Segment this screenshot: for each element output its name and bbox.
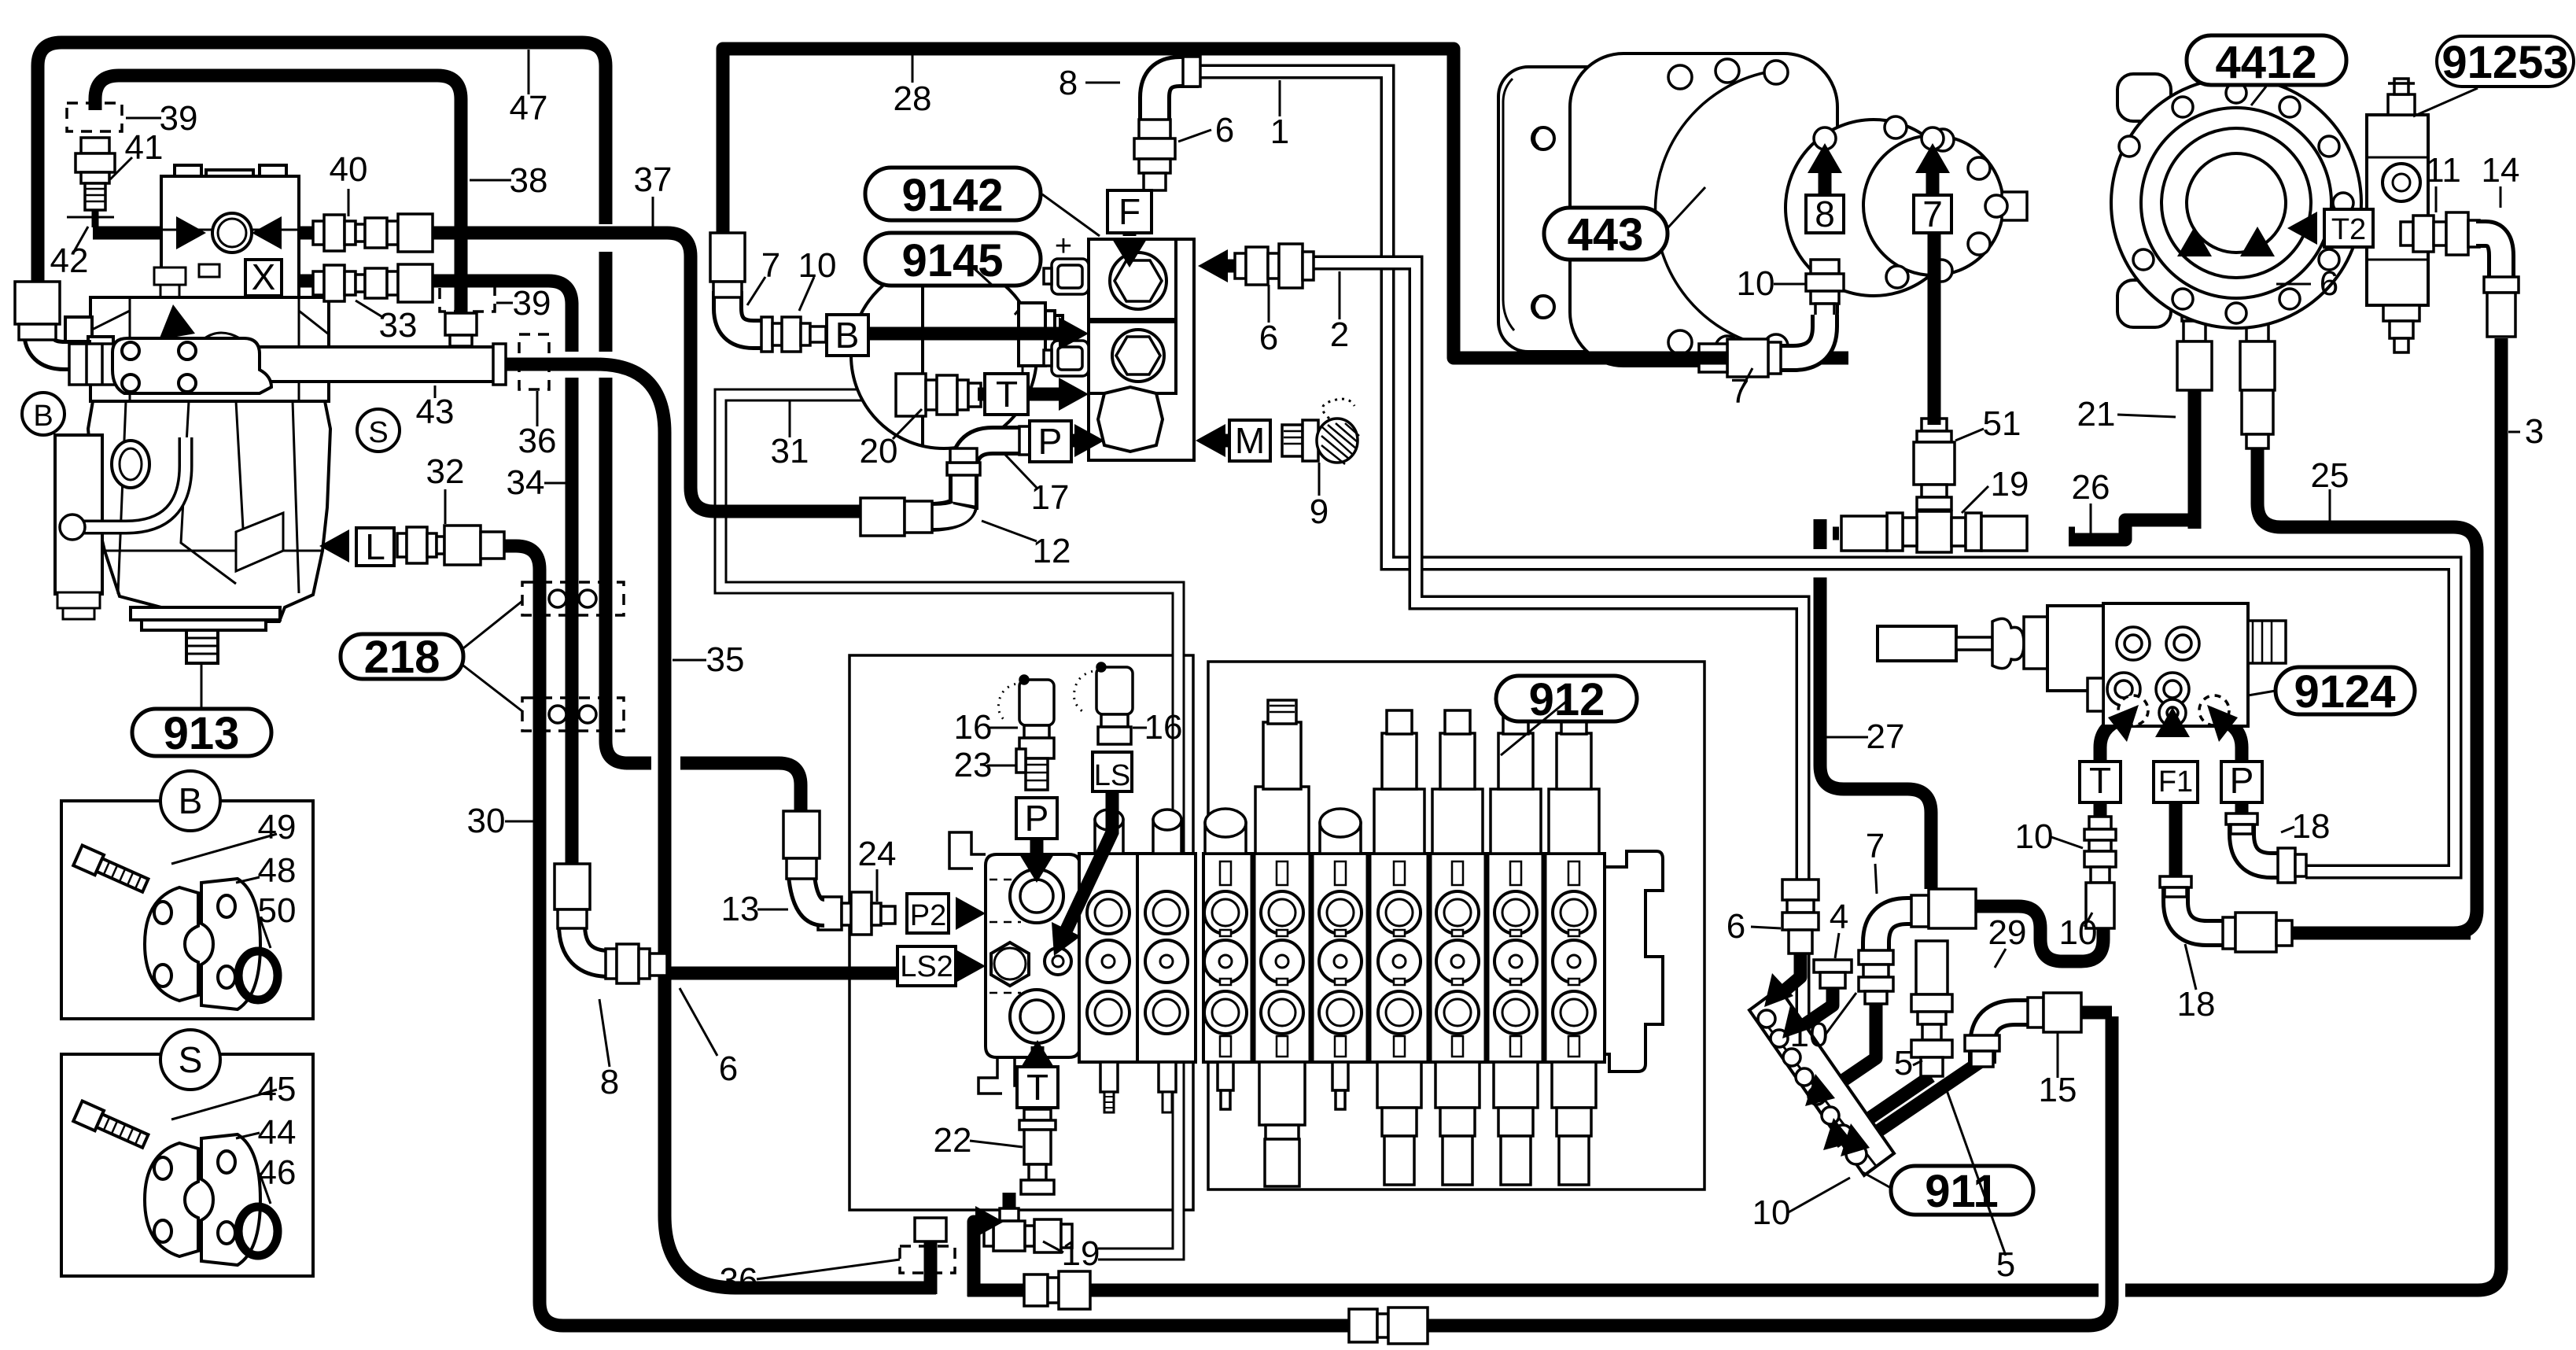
bank 912 top caps sections 1,3 domes (1205, 809, 1361, 854)
hose 28 to elbow 10 overdraw (1454, 352, 1727, 358)
arrow 7 up into motor (1915, 143, 1950, 173)
fitting 10 below box 8 (1806, 260, 1844, 327)
valve bank 912 spool circles (1204, 861, 1595, 1057)
svg-text:91253: 91253 (2441, 37, 2568, 88)
arrow P into block (1074, 424, 1104, 457)
detail box B (61, 801, 313, 1019)
fitting 20 chain west of T (896, 374, 981, 416)
svg-text:25: 25 (2311, 456, 2349, 495)
svg-text:46: 46 (258, 1153, 297, 1192)
hose 7 drop overdraw (1928, 233, 1941, 425)
svg-text:36: 36 (518, 422, 557, 460)
bank 912 bottom works (1218, 1062, 1596, 1186)
hose B line overdraw (868, 327, 1063, 341)
fitting 51 stack (1914, 419, 1955, 510)
hose 27 drop to manifold 911 (1820, 519, 1931, 889)
arrow L into pump (319, 529, 349, 562)
fitting 21 stack with hose end (2177, 277, 2212, 390)
fitting 32 chain (397, 526, 504, 565)
elbow 13 (783, 811, 824, 913)
svg-text:45: 45 (258, 1070, 297, 1108)
pump base plates (131, 607, 280, 620)
bank 912 towers sections 4-7 (1374, 710, 1599, 854)
elbow B at pump left (38, 321, 91, 356)
svg-text:10: 10 (1790, 1016, 1829, 1054)
small bank section 1 (1079, 810, 1137, 1112)
218 clamp dashed upper (522, 582, 624, 615)
arrow 5 into manifold (1823, 1118, 1853, 1150)
motor 443 ports 8 and 7 (1814, 127, 1836, 149)
hose elbow8 drop to F (1148, 116, 1162, 189)
clamp 36 on hose43 dashed (519, 334, 549, 389)
svg-text:16: 16 (1144, 708, 1183, 747)
svg-text:11: 11 (2425, 151, 2461, 190)
fitting on hose38 at pipe43 (445, 313, 477, 346)
svg-text:22: 22 (934, 1121, 972, 1160)
clamp half 44 rear (145, 1143, 198, 1256)
manifold feed from fitting 5 (1834, 1076, 1931, 1142)
svg-text:9: 9 (1310, 492, 1329, 531)
pump hook pipe (60, 437, 186, 540)
svg-text:16: 16 (954, 708, 993, 747)
connector minus on block (1044, 341, 1089, 410)
hose 35 riser to tank fitting 36 (924, 1235, 938, 1294)
elbow 7 + adapter chain to B box (710, 233, 826, 352)
fitting 6 stack with hose end (2240, 277, 2275, 390)
svg-text:2: 2 (1330, 315, 1349, 354)
svg-text:18: 18 (2292, 807, 2331, 846)
svg-text:4: 4 (1830, 898, 1848, 936)
valve block 9142 (1089, 239, 1194, 460)
pump top port circle (212, 213, 252, 253)
arrow LS diagonal (1052, 922, 1081, 956)
hose T line into block 9142 (978, 388, 1063, 401)
pipe 2 (thin outlined pipe from fitting 2/6 to 9124 area) (1311, 263, 1803, 1072)
hose 21 arrow stub (2188, 250, 2202, 275)
hose 37 top port line with fitting 40 (244, 233, 869, 511)
svg-text:T2: T2 (2331, 213, 2366, 246)
svg-text:F: F (1118, 191, 1141, 232)
hose 43 curve into hose 35 (504, 364, 936, 1288)
o-ring 46 (238, 1207, 278, 1256)
svg-text:P: P (1038, 421, 1063, 462)
svg-text:18: 18 (2177, 985, 2216, 1024)
pump left port stub (65, 317, 92, 347)
pump top valve block (161, 176, 299, 299)
manifold feed from plug 4 (1798, 987, 1833, 1029)
svg-text:15: 15 (2039, 1071, 2077, 1109)
svg-text:51: 51 (1983, 404, 2021, 443)
svg-text:9142: 9142 (901, 170, 1003, 221)
elbow 12 hose end (861, 498, 964, 536)
svg-text:T: T (996, 374, 1018, 415)
motor 443 shaft (2002, 192, 2027, 220)
elbow 18 at P 9124 (2226, 813, 2306, 883)
svg-text:17: 17 (1031, 478, 1070, 517)
pump top bolt tabs (175, 165, 201, 178)
hose 9124 T stub (2094, 803, 2107, 818)
pump control bracket over pipe (112, 333, 271, 393)
hose L port to 30 corner (481, 546, 2112, 1326)
hose 7 box stub overdraw (1926, 167, 1940, 195)
test point 16a with cap (998, 676, 1054, 790)
svg-text:P: P (2230, 760, 2254, 801)
manifold feed from elbow 15 (1850, 1060, 1982, 1150)
svg-text:32: 32 (426, 452, 465, 491)
svg-text:42: 42 (50, 242, 89, 280)
inlet lower tabs (978, 1057, 1030, 1094)
svg-text:39: 39 (160, 99, 198, 138)
clamp half 48 front (201, 879, 260, 1009)
hose 47 right drop (segmented at crossings) (606, 252, 628, 763)
clamp 36 dashed bottom (900, 1246, 955, 1273)
arrow T up into 9124 (2108, 705, 2139, 742)
clamp half 48 rear (145, 887, 198, 1001)
wire X diagonal (185, 294, 263, 324)
svg-text:P2: P2 (910, 899, 946, 932)
hose 28 frame top (723, 49, 1723, 358)
svg-text:6: 6 (1259, 319, 1278, 357)
detail box S (61, 1054, 313, 1276)
hose P line overdraw (1030, 434, 1076, 448)
svg-text:7: 7 (761, 246, 780, 285)
fitting 24 chain to P2 (818, 892, 895, 935)
svg-text:S: S (368, 416, 388, 449)
fitting 2/6 chain right of block (1235, 244, 1314, 288)
svg-text:10: 10 (2059, 913, 2098, 952)
svg-text:5: 5 (1894, 1044, 1913, 1083)
connector plus on block (1044, 230, 1089, 294)
arrow T2 into valve (2287, 212, 2317, 245)
svg-text:3: 3 (2525, 412, 2544, 451)
elbow 17 and riser to P (947, 426, 1030, 510)
hose 7 box arrow stub (1926, 167, 1940, 195)
inlet T port (1010, 990, 1063, 1043)
tank fitting 36 riser (915, 1218, 946, 1241)
svg-text:37: 37 (634, 160, 673, 199)
adapter on hose 25 at top (2242, 390, 2273, 448)
fitting 23 (1016, 749, 1026, 773)
pump side port ellipse (112, 441, 149, 488)
svg-text:9145: 9145 (901, 235, 1003, 286)
arrow T into block (1059, 378, 1089, 411)
svg-text:+: + (1055, 230, 1072, 263)
svg-text:19: 19 (1991, 465, 2029, 503)
hose F drop into block (1123, 198, 1137, 236)
inlet block (986, 854, 1080, 1057)
hose 22 to tee 19 (1009, 1106, 1037, 1208)
hose T inlet stub overdraw (1031, 1046, 1045, 1068)
clamp half 44 front (201, 1134, 260, 1265)
svg-text:14: 14 (2482, 151, 2520, 190)
arrow X diagonal (159, 304, 195, 340)
joystick handle (1878, 626, 1956, 661)
test point 16b with cap (1074, 663, 1133, 744)
svg-text:44: 44 (258, 1113, 297, 1152)
hose LS diagonal overdraw (1063, 790, 1112, 936)
svg-text:35: 35 (706, 640, 745, 679)
manifold feed from elbow 7c (1817, 1001, 1876, 1098)
bank 912 tall tower section 2 (1255, 700, 1309, 854)
svg-text:F1: F1 (2158, 765, 2193, 799)
svg-text:12: 12 (1033, 532, 1071, 570)
arrow 42 into port (176, 216, 206, 249)
hose LS2 run (667, 967, 956, 980)
drain hose to corner 3 (gap at elbow-15 riser) (1019, 1267, 2501, 1290)
hose 8 box stub overdraw (1819, 167, 1832, 195)
o-ring 50 (238, 951, 278, 1000)
hose T riser inlet (1031, 1046, 1045, 1068)
svg-text:30: 30 (467, 802, 506, 840)
svg-text:X: X (252, 256, 276, 297)
inlet LS2 hex port (991, 942, 1029, 986)
hose 26 link tee to fitting 21 (2069, 385, 2195, 540)
svg-text:443: 443 (1568, 209, 1644, 260)
svg-text:B: B (179, 780, 203, 821)
pipe 31 (thin outlined pipe from T fitting 20 down to tee 19) (720, 395, 1178, 1254)
arrow B into block (1059, 317, 1089, 350)
218 clamp dashed lower (522, 698, 624, 731)
svg-text:10: 10 (798, 246, 837, 285)
hose 25 from motor 4412 fitting 6 to 9124 F1 (2257, 385, 2477, 933)
pump bolt on mid flange (154, 267, 186, 285)
arrow 6c into manifold (1764, 973, 1793, 1007)
arrow F down (1112, 239, 1147, 267)
svg-text:48: 48 (258, 851, 297, 890)
svg-text:8: 8 (1815, 194, 1835, 234)
motor 443 rotor circle (1786, 120, 1962, 296)
plug 9 with cap chain at M (1282, 399, 1359, 464)
fitting 10 below T 9124 (2084, 817, 2116, 928)
svg-text:LS: LS (1094, 759, 1130, 792)
svg-text:20: 20 (860, 432, 898, 470)
end plate (1605, 851, 1663, 1072)
svg-text:1: 1 (1270, 112, 1289, 151)
svg-text:913: 913 (164, 708, 240, 759)
svg-text:4412: 4412 (2215, 37, 2316, 88)
svg-text:912: 912 (1529, 674, 1605, 725)
svg-text:33: 33 (379, 306, 418, 345)
tank box left (thin frame around valve banks) (849, 655, 1193, 1210)
svg-text:28: 28 (894, 79, 932, 118)
hose 3 vertical from elbow 14 (2495, 338, 2508, 1270)
svg-text:31: 31 (771, 432, 809, 470)
fitting 22 stack (1019, 1109, 1056, 1194)
hose tee 19b stubs (1833, 480, 2075, 533)
svg-text:49: 49 (258, 808, 297, 847)
arrow LS2 into inlet (956, 950, 986, 983)
fitting 11 chain (2401, 212, 2479, 255)
svg-text:S: S (179, 1039, 203, 1080)
hose T2 stub (2311, 222, 2324, 235)
pilot valve column (2047, 606, 2103, 691)
hose tee 19 feed from drain line (974, 1222, 982, 1297)
arrow into tee 19 (975, 1206, 1004, 1237)
tee 19 (984, 1208, 1072, 1252)
svg-text:6: 6 (1727, 907, 1745, 946)
elbow LS2 from hose 34 (555, 864, 667, 983)
hose 9124 P stub (2235, 803, 2249, 822)
motor 443 front face circle (1863, 135, 2003, 275)
svg-text:B: B (33, 400, 53, 433)
arrow 8 up into motor (1808, 143, 1842, 173)
elbow 14 (2476, 234, 2519, 337)
elbow 15 (1965, 993, 2112, 1067)
accumulator sphere 9145 (851, 263, 1063, 448)
hose 42 arrow line (93, 227, 181, 240)
fitting 6 below elbow 8 (1134, 120, 1175, 190)
arrow 4 into manifold (1782, 1005, 1811, 1038)
inlet P port (1010, 869, 1063, 923)
hose B line through accumulator (868, 327, 1063, 341)
svg-text:47: 47 (510, 89, 548, 127)
svg-text:34: 34 (507, 463, 545, 502)
manifold feed from fitting 6 (1774, 953, 1800, 999)
bolt 45 (73, 1101, 149, 1152)
motor 4412 flange circles (2111, 78, 2361, 328)
svg-text:6: 6 (719, 1049, 738, 1088)
hose P drop inlet (1030, 838, 1044, 864)
svg-text:911: 911 (1925, 1166, 1999, 1217)
svg-text:8: 8 (1059, 64, 1078, 102)
svg-text:27: 27 (1867, 717, 1905, 756)
pipe 1 (thin outlined pipe from elbow 8 to valve 9124 P elbow) (1196, 72, 2455, 872)
pump main mid housing (90, 297, 329, 401)
pump left B port block (88, 337, 113, 374)
svg-text:P: P (1025, 798, 1049, 839)
pump shaft stem (186, 630, 218, 663)
hose T line overdraw (978, 388, 1063, 401)
svg-text:10: 10 (2015, 817, 2054, 856)
arrow P2 into inlet (956, 897, 986, 930)
svg-text:41: 41 (125, 128, 164, 167)
arrow T up into inlet (1020, 1040, 1055, 1068)
svg-text:23: 23 (954, 746, 993, 784)
pipe 43 (69, 344, 506, 385)
bolt 49 (73, 846, 149, 896)
fitting 40 chain (313, 214, 433, 252)
motor 4412 bolt holes (2119, 83, 2353, 323)
svg-text:38: 38 (510, 161, 548, 200)
svg-text:43: 43 (416, 393, 455, 431)
svg-text:7: 7 (1866, 827, 1885, 865)
fitting 33 chain (313, 264, 433, 302)
svg-text:10: 10 (1737, 264, 1775, 303)
clamp 39 upper dashed (67, 103, 122, 131)
svg-text:26: 26 (2072, 468, 2110, 507)
svg-text:L: L (365, 526, 385, 567)
clamp 39 lower dashed (440, 283, 495, 312)
svg-text:7: 7 (1730, 372, 1749, 411)
svg-text:19: 19 (1062, 1234, 1100, 1273)
hose 9124 F1 drop (2169, 803, 2183, 881)
motor 443 body (1570, 53, 1837, 366)
svg-text:T: T (1026, 1067, 1048, 1108)
svg-text:7: 7 (1922, 194, 1943, 234)
svg-text:39: 39 (513, 284, 551, 323)
svg-text:6: 6 (1215, 111, 1234, 149)
elbow 18b at F1 9124 (2160, 876, 2292, 952)
hose-end fitting on hose47 left (15, 282, 60, 340)
valve bank box 912 (1208, 662, 1704, 1190)
svg-text:24: 24 (858, 835, 897, 873)
hose 2/6 arrow stub (1221, 260, 1235, 273)
svg-text:LS2: LS2 (900, 950, 953, 983)
hose 40 arrow line (277, 227, 315, 240)
tee 19b (1841, 511, 2027, 552)
motor 4412 ears (2117, 74, 2171, 121)
block 9124 ports (2088, 627, 2229, 726)
arrow 21 up into 4412 (2177, 227, 2212, 256)
hose 6 arrow stub (2251, 250, 2265, 275)
hose 47 top run (38, 42, 606, 285)
hose 28 to elbow10 chain (1809, 352, 1848, 365)
arrow 15 into manifold (1841, 1123, 1870, 1156)
fitting 4 cap (1814, 960, 1852, 988)
hose 7 drop from motor 443 port 7 to fitting 51 (1928, 233, 1941, 425)
svg-text:13: 13 (721, 890, 760, 928)
arrow P down into inlet (1019, 854, 1054, 883)
elbow 7c (1859, 889, 1976, 1004)
svg-text:B: B (835, 315, 860, 356)
pump window facet (399, 550, 401, 552)
motor 443 bolt holes (1668, 59, 2007, 360)
svg-text:8: 8 (600, 1063, 619, 1101)
small bank section 2 (1137, 810, 1196, 1112)
fitting 41 stack (67, 138, 115, 227)
elbow 8 top (1155, 57, 1200, 122)
arrow 6 up into 4412 (2240, 227, 2275, 256)
svg-text:M: M (1235, 420, 1265, 461)
svg-text:40: 40 (330, 150, 368, 189)
hose LS drop diagonal (1063, 790, 1112, 936)
inlet LS port (1045, 948, 1071, 975)
arrow 7c into manifold (1805, 1074, 1835, 1106)
hose M stub (1215, 434, 1229, 448)
pilot valve block 9124 (2103, 603, 2248, 726)
arrow P up into 9124 (2207, 705, 2238, 742)
arrow M into block (1196, 424, 1225, 457)
hose 34 drop to LS2 elbow (566, 303, 579, 873)
svg-text:10: 10 (1752, 1193, 1791, 1232)
hose P 9142 elbow riser (964, 441, 1074, 502)
hose 9124 T return (1966, 906, 2103, 961)
fitting 6c stack (1782, 880, 1819, 953)
svg-text:36: 36 (720, 1261, 758, 1300)
pump lower body (88, 401, 330, 622)
arrow F1 up into 9124 (2155, 707, 2190, 737)
svg-text:50: 50 (258, 891, 297, 930)
svg-text:21: 21 (2077, 395, 2116, 433)
hose 8 box arrow stub (1819, 167, 1832, 195)
valve 91253 (2367, 79, 2428, 352)
hose 9124 F1 to corner 25 (2287, 927, 2471, 940)
hose P inlet stub overdraw (1030, 839, 1044, 865)
svg-text:6: 6 (2320, 264, 2338, 303)
arrow 2 into block (1198, 249, 1228, 282)
hose 38 top run from fitting 41 corner (95, 76, 461, 316)
motor 443 mount plate (1498, 67, 1628, 352)
hose X port line with fitting 33 (282, 281, 572, 304)
svg-text:T: T (2089, 760, 2111, 801)
pump left auxiliary block (55, 435, 102, 594)
arrow 40 into port (252, 216, 282, 249)
hose 47 run to P2 elbow (626, 763, 801, 818)
adapter on drain line below tee (1024, 1271, 1090, 1309)
adapter on drain at 2685 riser (1349, 1308, 1428, 1344)
svg-text:9124: 9124 (2294, 666, 2395, 717)
svg-text:218: 218 (364, 632, 440, 683)
